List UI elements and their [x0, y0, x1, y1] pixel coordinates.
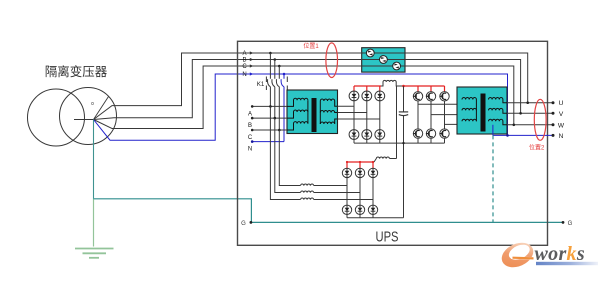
rectifier transformer secondary common link	[319, 101, 321, 124]
inverter IGBT Q8	[426, 92, 435, 101]
e-works logo swoosh e	[498, 238, 537, 272]
contactor K1 left ticks	[265, 77, 267, 91]
node G right dot	[562, 221, 565, 224]
terminal dot W	[552, 123, 555, 126]
charger SCR Q18	[368, 205, 377, 214]
node dot stub C end	[251, 129, 254, 132]
inverter IGBT Q7	[413, 92, 422, 101]
node dot bypass on U	[526, 101, 529, 104]
rectifier transformer primary winding 1	[287, 98, 308, 106]
svg-text:works: works	[535, 243, 585, 265]
rectifier transformer primary winding 2	[287, 110, 308, 118]
wire phase A from transformer to UPS entry	[94, 53, 240, 120]
node dot charger red 1	[346, 161, 348, 163]
output transformer primary winding 1	[462, 97, 476, 99]
wire ground bus G across UPS (teal)	[251, 221, 563, 223]
node dot junction C stub	[278, 129, 281, 132]
wire neutral N from transformer to UPS entry (blue)	[94, 74, 240, 140]
svg-text:位置2: 位置2	[529, 143, 545, 151]
output transformer secondary winding 2	[489, 108, 508, 113]
wire output N (blue)	[493, 134, 553, 136]
terminal dot V	[552, 112, 555, 115]
contactor K1 pole A	[267, 53, 270, 106]
rectifier SCR Q1	[349, 91, 359, 101]
node dot stub B end	[251, 117, 254, 120]
svg-text:G: G	[568, 221, 573, 227]
svg-text:A: A	[248, 111, 252, 117]
node dot junction B stub	[274, 117, 277, 120]
charger red stub 2	[359, 162, 361, 168]
bypass SCR pair S1	[366, 49, 374, 57]
charger SCR Q15	[368, 168, 377, 177]
node dot bypass A drop	[269, 52, 272, 55]
stub wire A to transformer	[252, 105, 287, 107]
inverter IGBT Q10	[413, 129, 422, 138]
inverter IGBT Q12	[440, 129, 449, 138]
wire transformer secondary 3 to rectifier	[338, 118, 380, 120]
node dot bypass on W	[513, 124, 516, 127]
inverter IGBT Q11	[426, 129, 435, 138]
UPS enclosure box	[238, 41, 548, 245]
wire output U	[507, 102, 553, 104]
output transformer core bar	[481, 94, 486, 132]
rectifier transformer secondary winding 3	[320, 119, 337, 124]
charger leg verticals	[347, 168, 373, 215]
stub wire N (blue)	[252, 141, 284, 143]
teal dashed ground link from output transformer	[492, 135, 494, 222]
rectifier transformer secondary winding 1	[320, 99, 337, 106]
wire phase A down to charger input	[270, 106, 300, 199]
node G left dot	[250, 221, 253, 224]
rectifier bottom stubs	[354, 140, 380, 144]
stub wire B to transformer	[252, 117, 287, 119]
DC link capacitor C1	[403, 86, 405, 112]
svg-text:C: C	[242, 64, 247, 70]
rectifier SCR Q5	[362, 130, 372, 140]
battery converter choke L5	[374, 157, 397, 162]
node dot bypass N drop	[283, 73, 286, 76]
wire phase C from transformer to UPS entry	[94, 66, 240, 129]
node dot DC- cap	[402, 142, 404, 144]
ground symbol	[75, 249, 114, 258]
rectifier transformer block (teal)	[287, 90, 338, 134]
rectifier bridge leg verticals	[354, 91, 380, 140]
bypass SCR pair S3	[393, 62, 401, 70]
inductor L1 on C charger feed	[301, 184, 314, 186]
svg-text:N: N	[248, 147, 252, 153]
node dot bypass B drop	[274, 58, 277, 61]
rectifier SCR Q3	[375, 91, 385, 101]
DC- bus bottom	[354, 142, 445, 144]
inverter red stub 1	[417, 86, 419, 92]
output transformer secondary winding 1	[489, 97, 508, 102]
wire ground vertical lower (light green)	[93, 199, 95, 247]
marker ellipse 位置1 (red)	[326, 43, 338, 78]
wire inverter phase 1 to output transformer	[418, 100, 462, 105]
rectifier red stub 1	[353, 86, 355, 91]
rectifier SCR Q4	[349, 130, 359, 140]
output transformer secondary winding 3	[489, 119, 508, 125]
svg-text:G: G	[241, 221, 246, 227]
svg-text:W: W	[558, 122, 565, 129]
marker ellipse 位置2 (red)	[534, 99, 546, 140]
entry arrow C	[250, 64, 254, 67]
entry arrow N	[250, 72, 254, 75]
rectifier transformer secondary winding 2	[320, 110, 337, 112]
node dot bypass on V	[519, 112, 522, 115]
inductor L3 on A charger feed	[301, 198, 314, 200]
svg-text:A: A	[242, 51, 246, 57]
output transformer block (teal)	[457, 87, 507, 134]
node dot charger red 3	[372, 161, 374, 163]
wire ground horizontal into UPS (teal)	[94, 199, 252, 223]
svg-text:B: B	[248, 123, 252, 129]
wire output W	[507, 124, 553, 126]
rectifier transformer primary winding 3	[287, 122, 308, 130]
svg-text:K1: K1	[257, 81, 265, 88]
node dot charger red 2	[359, 161, 361, 163]
wire transformer secondary 2 to rectifier	[338, 112, 367, 114]
svg-text:隔离变压器: 隔离变压器	[45, 64, 108, 79]
bypass SCR pair S2	[380, 56, 388, 64]
rectifier red stub 3	[379, 86, 381, 91]
charger SCR Q17	[355, 205, 364, 214]
transformer inner diagonal	[94, 97, 109, 120]
wire inverter phase 2 to output transformer	[431, 110, 462, 114]
inverter leg verticals	[418, 92, 445, 144]
wire phase C down to charger input	[279, 130, 300, 186]
inverter red stub 2	[430, 86, 432, 92]
charger red stub 1	[346, 162, 348, 168]
output transformer neutral stub (blue)	[492, 125, 494, 136]
svg-text:UPS: UPS	[376, 229, 399, 246]
charger red stub 3	[372, 162, 374, 168]
wire C charger feed to leg 1	[314, 185, 347, 187]
battery converter red bus	[347, 161, 374, 163]
stub wire C to transformer	[252, 129, 287, 131]
svg-text:位置1: 位置1	[303, 42, 319, 50]
rectifier transformer core bar	[312, 98, 317, 132]
contactor K1 pole N (blue)	[281, 74, 284, 142]
svg-text:N: N	[242, 72, 246, 78]
inverter red stub 3	[444, 86, 446, 92]
entry arrow B	[250, 58, 254, 61]
output transformer primary common link	[475, 100, 477, 122]
svg-text:B: B	[242, 58, 246, 64]
inverter IGBT Q9	[440, 92, 449, 101]
DC+ bus red to inverter	[404, 85, 445, 87]
charger SCR Q14	[355, 168, 364, 177]
wire B charger feed to leg 2	[314, 192, 360, 194]
inductor L2 on B charger feed	[301, 191, 314, 193]
contactor K1 pole C	[276, 66, 279, 130]
charger bottom bus	[347, 217, 404, 219]
isolation transformer T1 circle right	[60, 88, 117, 145]
e-works logo blue bar	[536, 262, 598, 265]
contactor K1 right ticks	[286, 77, 288, 91]
node dot junction A stub	[269, 105, 272, 108]
output transformer primary winding 3	[462, 119, 476, 121]
terminal dot U	[552, 101, 555, 104]
charger SCR Q16	[342, 205, 351, 214]
wire output V	[507, 112, 553, 114]
node dot stub N end	[251, 140, 254, 143]
wire phase B from transformer to UPS entry	[94, 60, 240, 120]
rectifier transformer primary common link	[307, 100, 309, 123]
wire phase B down to charger input	[275, 118, 301, 192]
wire neutral N across top to output (blue)	[239, 74, 508, 135]
wire transformer secondary 1 to rectifier	[338, 105, 355, 107]
wire ground vertical from transformer (teal)	[93, 120, 95, 199]
terminal dot N	[552, 134, 555, 137]
transformer inner tick	[74, 119, 94, 121]
node dot DC bus red	[402, 85, 405, 88]
DC choke L4	[381, 80, 404, 86]
feed to battery converter: vertical from DC choke	[396, 86, 398, 159]
wire bypass A across top to output U	[239, 53, 528, 103]
rectifier red stub 2	[366, 86, 368, 91]
DC+ bus red from rectifier	[354, 85, 381, 87]
contactor K1 pole B	[272, 60, 275, 119]
rectifier SCR Q2	[362, 91, 372, 101]
node dot stub A end	[251, 105, 254, 108]
svg-text:N: N	[559, 133, 564, 140]
svg-text:C: C	[248, 135, 253, 141]
entry arrow A	[250, 51, 254, 54]
wire A charger feed to leg 3	[314, 199, 373, 201]
rectifier SCR Q6	[375, 130, 385, 140]
node dot bypass C drop	[278, 65, 281, 68]
wire inverter phase 3 to output transformer	[445, 121, 463, 124]
transformer small circle mark	[91, 102, 93, 104]
output transformer primary winding 2	[462, 108, 476, 110]
svg-text:V: V	[559, 111, 564, 118]
isolation transformer T1 circle left	[28, 89, 85, 146]
wire bypass C across top to output W	[239, 66, 514, 125]
static bypass block (teal)	[362, 48, 405, 72]
node dot N join	[506, 134, 509, 137]
wire bypass B across top to output V	[239, 60, 521, 114]
svg-text:U: U	[559, 100, 564, 107]
charger SCR Q13	[342, 168, 351, 177]
